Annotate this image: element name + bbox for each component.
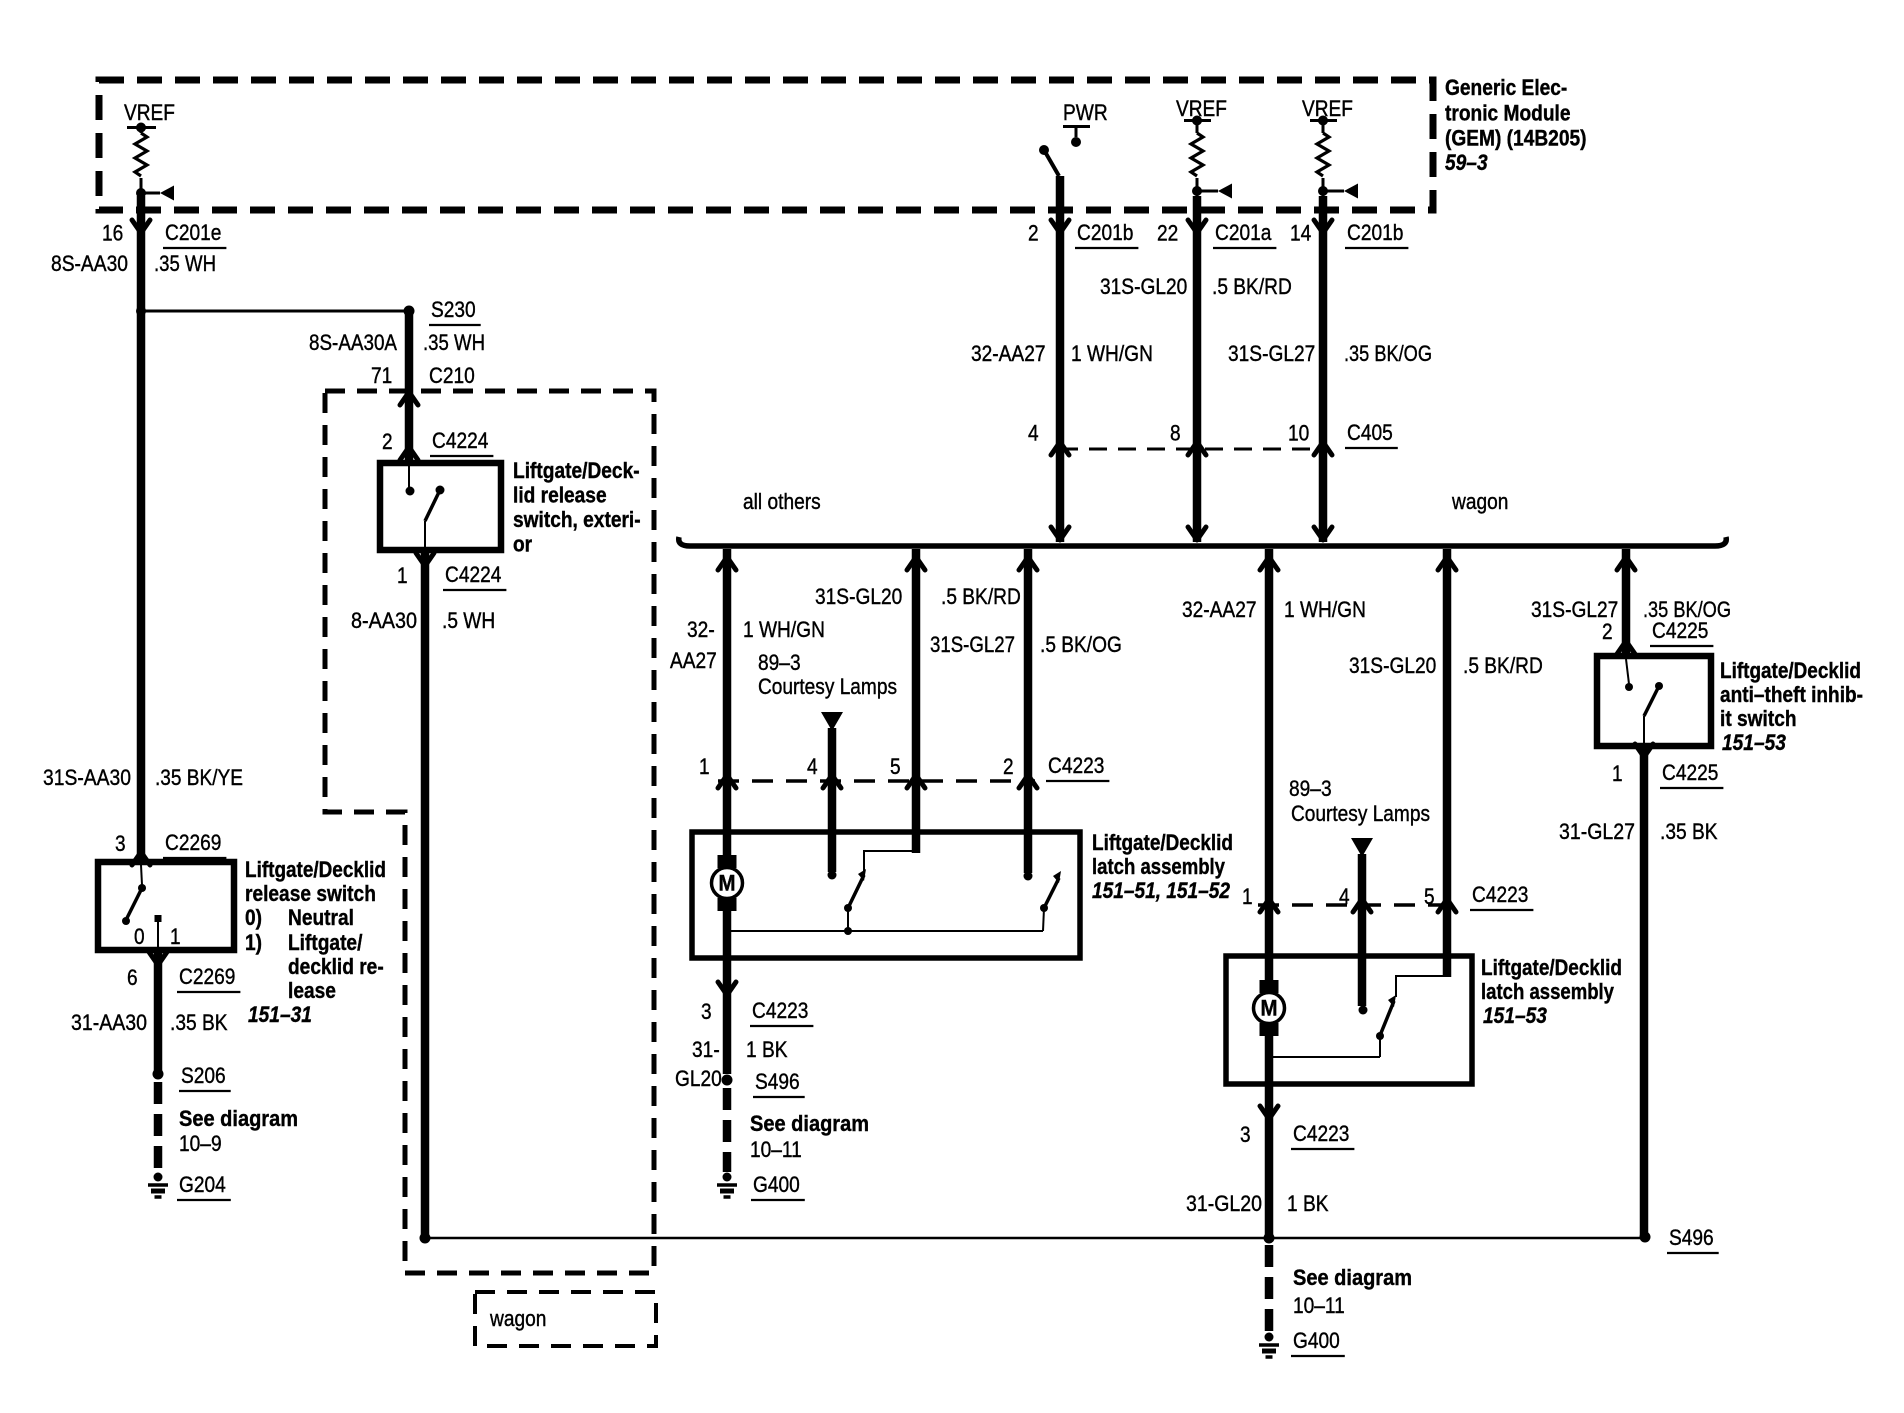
svg-text:151–31: 151–31 [248, 1002, 312, 1027]
svg-text:C4223: C4223 [1048, 753, 1104, 778]
connector C2269 arrow (pin 3) [132, 852, 150, 865]
svg-text:2: 2 [382, 429, 393, 454]
wire 8S-AA30 from GEM pin 16 down to release switch [137, 196, 146, 861]
svg-text:31S-GL27: 31S-GL27 [930, 632, 1015, 657]
connector C4224 arrow (pin 1) [416, 553, 434, 566]
svg-text:10–11: 10–11 [750, 1137, 802, 1162]
svg-text:C2269: C2269 [165, 830, 221, 855]
svg-text:C2269: C2269 [179, 964, 235, 989]
svg-text:VREF: VREF [124, 100, 175, 125]
svg-text:G400: G400 [753, 1172, 800, 1197]
svg-text:Liftgate/Deck-: Liftgate/Deck- [513, 458, 640, 483]
label see diagram 10-11 (right) [1293, 1265, 1412, 1318]
label wire 32-AA27 1 WH/GN [971, 341, 1153, 366]
svg-text:6: 6 [127, 965, 138, 990]
connector C4224 label (top) [430, 428, 493, 456]
node splice S206 [153, 1063, 231, 1091]
connector C4225 arrow (pin 2) [1617, 641, 1635, 654]
svg-text:5: 5 [890, 754, 901, 779]
svg-text:31-GL27: 31-GL27 [1559, 819, 1635, 844]
svg-text:latch assembly: latch assembly [1481, 979, 1615, 1004]
label 89-3 Courtesy Lamps (wagon) [1289, 776, 1430, 826]
connector C4225 label (top) [1650, 618, 1713, 646]
svg-text:Liftgate/Decklid: Liftgate/Decklid [1092, 830, 1233, 855]
label 31- GL20 1 BK [675, 1037, 788, 1091]
ground G400 (right) [1259, 1328, 1345, 1357]
connector C4224 arrow (pin 2) [400, 447, 418, 460]
connector C4223 arrows (latch 2) [1260, 899, 1456, 912]
svg-text:.5 BK/RD: .5 BK/RD [1212, 274, 1292, 299]
wire motor 1 to box bottom [723, 908, 732, 958]
svg-text:VREF: VREF [1176, 96, 1227, 121]
label 31-GL20 1 BK (latch 2) [1186, 1191, 1329, 1216]
svg-text:C201b: C201b [1077, 220, 1133, 245]
motor M (latch 1) [712, 855, 743, 911]
svg-text:0): 0) [245, 905, 262, 930]
svg-text:C4223: C4223 [1293, 1121, 1349, 1146]
svg-text:.35 BK/OG: .35 BK/OG [1344, 341, 1432, 366]
wire 31S-GL20 from GEM pin 22 down to bus [1193, 196, 1202, 542]
svg-text:89–3: 89–3 [758, 650, 801, 675]
node junction right VREF with input arrow [1318, 184, 1358, 199]
svg-text:tronic Module: tronic Module [1445, 101, 1571, 126]
wire 31-GL27 .35 BK down to S496 [1559, 746, 1718, 1237]
label latch assembly 1 [1092, 830, 1233, 903]
wire branch to S230 [141, 310, 409, 313]
svg-text:C4225: C4225 [1652, 618, 1708, 643]
wire dashed continuation to G400 (latch 1) [723, 1088, 732, 1172]
wire 32-AA27 1 WH/GN (wagon) [1182, 549, 1366, 983]
wire courtesy lamps to latch 2 pin 4 [1358, 854, 1367, 1006]
svg-text:16: 16 [102, 221, 123, 246]
svg-text:switch, exteri-: switch, exteri- [513, 507, 641, 532]
connector C4225 arrow (pin 1) [1635, 744, 1653, 757]
svg-text:10–11: 10–11 [1293, 1293, 1345, 1318]
node splice S496 (right) [1640, 1225, 1719, 1253]
connector C4223 arrow (pin 3, latch 2) [1260, 1106, 1278, 1119]
pin 3 label [115, 831, 126, 856]
connector C4223 label (latch 1 bottom) [750, 998, 813, 1026]
wire stepped link pin 5 to switch (latch 2) [1396, 976, 1447, 997]
connector C4223 arrow (pin 3, latch 1) [718, 982, 736, 995]
module GEM (Generic Electronic Module) dashed outline [99, 80, 1433, 210]
svg-text:8S-AA30: 8S-AA30 [51, 251, 128, 276]
wire dashed continuation to G400 (right) [1265, 1245, 1274, 1332]
label wire 31S-AA30 .35 BK/YE [43, 765, 243, 790]
ground G400 (left) [717, 1172, 805, 1200]
switch lever (latch 2) [1376, 995, 1396, 1057]
node contact pin 4 (latch 1) [828, 871, 837, 880]
node contact pin 2 (latch 1) [1024, 872, 1033, 881]
svg-text:22: 22 [1157, 221, 1178, 246]
svg-text:.35 BK: .35 BK [170, 1010, 228, 1035]
svg-text:G204: G204 [179, 1172, 226, 1197]
svg-text:C4223: C4223 [752, 998, 808, 1023]
svg-text:C201b: C201b [1347, 220, 1403, 245]
motor M (latch 2) [1254, 980, 1285, 1036]
svg-text:8-AA30: 8-AA30 [351, 608, 417, 633]
latch assembly 1 box [692, 832, 1080, 958]
node junction latch 2 ground leg [1264, 1233, 1275, 1244]
connector C201e arrow [132, 220, 150, 233]
svg-text:31S-GL20: 31S-GL20 [815, 584, 902, 609]
node VREF (middle) label [1176, 96, 1227, 121]
connector C4223 pin labels (latch 2) [1242, 884, 1435, 909]
svg-text:S206: S206 [181, 1063, 226, 1088]
connector C201b arrow (pin 2) [1051, 220, 1069, 233]
label wire 31S-GL20 .5 BK/RD [1100, 274, 1292, 299]
label GEM title [1445, 75, 1587, 175]
switch liftgate/decklid release switch exterior box [380, 463, 501, 550]
wire 31S-GL27 from GEM pin 14 down to bus [1319, 196, 1328, 542]
svg-text:89–3: 89–3 [1289, 776, 1332, 801]
svg-text:14: 14 [1290, 221, 1311, 246]
connector C201b label (right) [1345, 220, 1408, 248]
label 31S-GL20 .5 BK/RD (all others) [815, 584, 1021, 609]
svg-text:.5 BK/RD: .5 BK/RD [1463, 653, 1543, 678]
svg-text:59–3: 59–3 [1445, 150, 1488, 175]
wire 8-AA30 .5 WH down to S496 [351, 550, 495, 1238]
switch lever (anti-theft inhibit) [1625, 659, 1663, 743]
switch contact and lever (exterior release switch) [406, 466, 445, 547]
svg-text:.35 WH: .35 WH [154, 251, 216, 276]
svg-text:31-GL20: 31-GL20 [1186, 1191, 1262, 1216]
svg-text:Liftgate/Decklid: Liftgate/Decklid [1720, 658, 1861, 683]
wire courtesy lamps to latch 1 pin 4 [828, 728, 837, 872]
connector C4223 arrows [718, 775, 1037, 788]
svg-text:.35 BK: .35 BK [1660, 819, 1718, 844]
svg-text:31S-GL27: 31S-GL27 [1228, 341, 1315, 366]
wire 31S-GL27 .5 BK/OG to latch 1 pin 2 [930, 549, 1122, 873]
svg-text:wagon: wagon [489, 1306, 546, 1331]
wire internal common (latch 2) [1265, 1053, 1380, 1061]
connector C4223 dashed line (latch 2) [1258, 903, 1455, 906]
svg-text:S230: S230 [431, 297, 476, 322]
svg-text:Liftgate/: Liftgate/ [288, 930, 362, 955]
svg-text:32-AA27: 32-AA27 [1182, 597, 1257, 622]
connector C201e label [163, 220, 226, 248]
node courtesy lamps feed arrow [821, 712, 843, 731]
wire 32-AA27 1 WH/GN (all others) [723, 549, 732, 858]
pin 16 label [102, 221, 123, 246]
label see diagram 10-9 [179, 1106, 298, 1156]
connector C405 dashed line [1060, 448, 1324, 451]
switch liftgate/decklid release switch box [98, 862, 234, 950]
wire 8S-AA30A .35 WH [309, 311, 485, 460]
pin 22 label [1157, 221, 1178, 246]
connector C405 label [1345, 420, 1398, 448]
switch GEM internal PWR switch [1039, 145, 1059, 176]
label wire 8S-AA30 .35 WH [51, 251, 216, 276]
connector C201b label [1075, 220, 1138, 248]
svg-text:2: 2 [1602, 619, 1613, 644]
label wagon branch [1451, 489, 1508, 514]
svg-text:1: 1 [397, 563, 408, 588]
wire 31S-GL20 to latch 1 pin 5 [912, 549, 921, 853]
label wire 31S-GL27 .35 BK/OG [1228, 341, 1432, 366]
svg-text:release switch: release switch [245, 881, 376, 906]
node VREF (left) terminal [127, 123, 156, 133]
pin 6 label [127, 965, 138, 990]
svg-text:3: 3 [1240, 1122, 1251, 1147]
svg-text:.5 BK/RD: .5 BK/RD [941, 584, 1021, 609]
label exterior release switch [513, 458, 641, 557]
svg-text:lid release: lid release [513, 483, 607, 508]
resistor (left VREF pull-up) [135, 127, 147, 196]
node splice S230 [404, 297, 481, 325]
svg-text:G400: G400 [1293, 1328, 1340, 1353]
svg-text:or: or [513, 532, 532, 557]
resistor (middle VREF pull-up) [1191, 120, 1203, 196]
svg-text:31S-GL20: 31S-GL20 [1100, 274, 1187, 299]
connector C4223 label [1046, 753, 1109, 781]
label latch assembly 2 [1481, 955, 1622, 1028]
svg-text:.35 BK/YE: .35 BK/YE [155, 765, 243, 790]
node PWR terminal [1063, 126, 1090, 147]
svg-text:anti–theft inhib-: anti–theft inhib- [1720, 682, 1863, 707]
connector C4223 dashed line [718, 779, 1035, 782]
node contact pin 4 (latch 2) [1359, 1006, 1368, 1015]
svg-text:.5 BK/OG: .5 BK/OG [1040, 632, 1122, 657]
node splice S496 (latch 1) [722, 1069, 805, 1097]
svg-text:decklid re-: decklid re- [288, 954, 384, 979]
wire 32-AA27 from GEM pin 2 down to bus [1056, 176, 1065, 542]
svg-text:Neutral: Neutral [288, 905, 354, 930]
svg-text:(GEM) (14B205): (GEM) (14B205) [1445, 126, 1587, 151]
svg-text:1: 1 [699, 754, 710, 779]
pin 3 label (latch 1) [701, 999, 712, 1024]
svg-text:151–51, 151–52: 151–51, 151–52 [1092, 878, 1231, 903]
wire 31S-GL20 .5 BK/RD (wagon) [1349, 549, 1543, 977]
node junction left VREF with input arrow [136, 186, 174, 201]
switch lever right (latch 1) [1040, 871, 1061, 931]
svg-text:lease: lease [288, 978, 336, 1003]
node VREF (middle) terminal [1184, 116, 1211, 126]
svg-text:1 WH/GN: 1 WH/GN [1071, 341, 1153, 366]
svg-text:151–53: 151–53 [1722, 730, 1786, 755]
svg-text:1: 1 [1242, 884, 1253, 909]
ground G204 [148, 1172, 231, 1200]
wire 31-GL20 1 BK (latch 1 ground leg) [723, 958, 732, 1074]
svg-text:31S-GL20: 31S-GL20 [1349, 653, 1436, 678]
svg-text:C4223: C4223 [1472, 882, 1528, 907]
node splice junction on 8S-AA30 [136, 306, 146, 316]
connector C210 arrow [400, 392, 418, 405]
wire motor 2 to box bottom [1265, 1033, 1274, 1084]
wire splice link to S496 [425, 1237, 1645, 1240]
connector C210 pin 71 labels [371, 363, 475, 388]
svg-text:2: 2 [1028, 221, 1039, 246]
resistor (right VREF pull-up) [1317, 120, 1329, 196]
connector C405 arrows [1051, 442, 1332, 455]
switch contact pin 6 stub [155, 915, 162, 947]
svg-text:10–9: 10–9 [179, 1131, 222, 1156]
wire stepped link pin 5 to switch (latch 1) [864, 851, 916, 871]
svg-text:See diagram: See diagram [179, 1106, 298, 1131]
svg-text:S496: S496 [755, 1069, 800, 1094]
svg-text:.5 WH: .5 WH [442, 608, 495, 633]
wire dashed continuation to G204 [154, 1082, 163, 1172]
svg-text:Liftgate/Decklid: Liftgate/Decklid [245, 857, 386, 882]
connector C4225 label (bottom) [1660, 760, 1723, 788]
svg-text:10: 10 [1288, 421, 1309, 446]
svg-text:Courtesy Lamps: Courtesy Lamps [1291, 801, 1430, 826]
pin 2 label C4225 [1602, 619, 1613, 644]
svg-text:1: 1 [170, 924, 181, 949]
svg-text:all others: all others [743, 489, 821, 514]
svg-text:3: 3 [115, 831, 126, 856]
connector C201a arrow (pin 22) [1188, 220, 1206, 233]
svg-text:PWR: PWR [1063, 100, 1108, 125]
svg-text:.35 WH: .35 WH [423, 330, 485, 355]
svg-text:1 WH/GN: 1 WH/GN [743, 617, 825, 642]
node VREF (right) terminal [1310, 116, 1337, 126]
svg-text:Generic Elec-: Generic Elec- [1445, 75, 1567, 100]
svg-text:31-: 31- [692, 1037, 720, 1062]
svg-text:1 BK: 1 BK [1287, 1191, 1329, 1216]
pin 1 label C4224 [397, 563, 408, 588]
svg-text:C201a: C201a [1215, 220, 1272, 245]
wire 31S-GL27 .35 BK/OG (wagon) [1531, 549, 1731, 656]
switch position labels 0 1 [134, 924, 181, 949]
label see diagram 10-11 (left) [750, 1111, 869, 1162]
connector C201a label [1213, 220, 1276, 248]
svg-text:8: 8 [1170, 421, 1181, 446]
connector C4224 label (bottom) [443, 562, 506, 590]
svg-text:3: 3 [701, 999, 712, 1024]
svg-text:C4224: C4224 [432, 428, 488, 453]
connector C4223 pin labels 1 4 5 2 [699, 754, 1014, 779]
svg-text:See diagram: See diagram [1293, 1265, 1412, 1290]
pin 2 label C4224 [382, 429, 393, 454]
svg-text:C210: C210 [429, 363, 475, 388]
svg-text:4: 4 [807, 754, 818, 779]
svg-text:it switch: it switch [1720, 706, 1797, 731]
connector C4223 label (latch 2 bottom) [1291, 1121, 1354, 1149]
svg-text:31-AA30: 31-AA30 [71, 1010, 147, 1035]
svg-text:wagon: wagon [1451, 489, 1508, 514]
svg-text:151–53: 151–53 [1483, 1003, 1547, 1028]
node VREF (right) label [1302, 96, 1353, 121]
svg-text:C201e: C201e [165, 220, 221, 245]
svg-text:See diagram: See diagram [750, 1111, 869, 1136]
svg-text:4: 4 [1028, 421, 1039, 446]
svg-text:8S-AA30A: 8S-AA30A [309, 330, 397, 355]
pin 14 label [1290, 221, 1311, 246]
wire 31-AA30 .35 BK [71, 950, 228, 1074]
node junction middle VREF with input arrow [1192, 184, 1232, 199]
boundary dashed box (wagon exterior-release region) [325, 391, 654, 1273]
svg-text:S496: S496 [1669, 1225, 1714, 1250]
svg-text:31S-AA30: 31S-AA30 [43, 765, 131, 790]
wire bus with hooked ends [679, 537, 1727, 546]
svg-text:1 WH/GN: 1 WH/GN [1284, 597, 1366, 622]
latch assembly 2 box [1226, 956, 1472, 1084]
svg-text:VREF: VREF [1302, 96, 1353, 121]
svg-text:1: 1 [1612, 761, 1623, 786]
svg-text:AA27: AA27 [670, 648, 717, 673]
node courtesy lamps feed arrow (wagon) [1351, 838, 1373, 857]
pin 3 label (latch 2) [1240, 1122, 1251, 1147]
svg-text:GL20: GL20 [675, 1066, 722, 1091]
pin 1 label C4225 [1612, 761, 1623, 786]
connector C2269 label (bottom) [177, 964, 240, 992]
svg-text:Courtesy Lamps: Courtesy Lamps [758, 674, 897, 699]
wire 31-GL20 1 BK (latch 2 ground leg) [1265, 1084, 1274, 1238]
pin 2 label [1028, 221, 1039, 246]
bus arrows from GEM wires [1051, 527, 1332, 540]
node PWR label [1063, 100, 1108, 125]
svg-text:2: 2 [1003, 754, 1014, 779]
bus arrows to branch wires [718, 557, 1635, 570]
connector C2269 label (top) [163, 830, 226, 858]
wire internal common (latch 1) [723, 927, 1043, 935]
switch lever (release switch) [122, 865, 146, 925]
node VREF (left) label [124, 100, 175, 125]
svg-text:C405: C405 [1347, 420, 1393, 445]
svg-text:latch assembly: latch assembly [1092, 854, 1226, 879]
switch anti-theft inhibit box [1597, 656, 1711, 746]
label release switch description [245, 857, 386, 1027]
connector C405 pin labels 4 8 10 [1028, 421, 1309, 446]
switch lever middle (latch 1) [844, 869, 866, 935]
label 32- AA27 1 WH/GN [670, 617, 825, 673]
svg-text:C4225: C4225 [1662, 760, 1718, 785]
svg-text:32-AA27: 32-AA27 [971, 341, 1046, 366]
node junction 8-AA30 to S496 line [420, 1233, 431, 1244]
label all others [743, 489, 821, 514]
label wagon box [475, 1292, 656, 1346]
label anti-theft switch [1720, 658, 1863, 755]
svg-text:Liftgate/Decklid: Liftgate/Decklid [1481, 955, 1622, 980]
svg-text:1): 1) [245, 930, 262, 955]
connector C201b arrow (pin 14) [1314, 220, 1332, 233]
svg-text:32-: 32- [687, 617, 715, 642]
svg-text:71: 71 [371, 363, 392, 388]
connector C4223 label (latch 2) [1470, 882, 1533, 910]
svg-text:0: 0 [134, 924, 145, 949]
svg-text:C4224: C4224 [445, 562, 501, 587]
label 89-3 Courtesy Lamps (all others) [758, 650, 897, 699]
connector C2269 arrow (pin 6) [149, 952, 167, 965]
svg-text:1 BK: 1 BK [746, 1037, 788, 1062]
